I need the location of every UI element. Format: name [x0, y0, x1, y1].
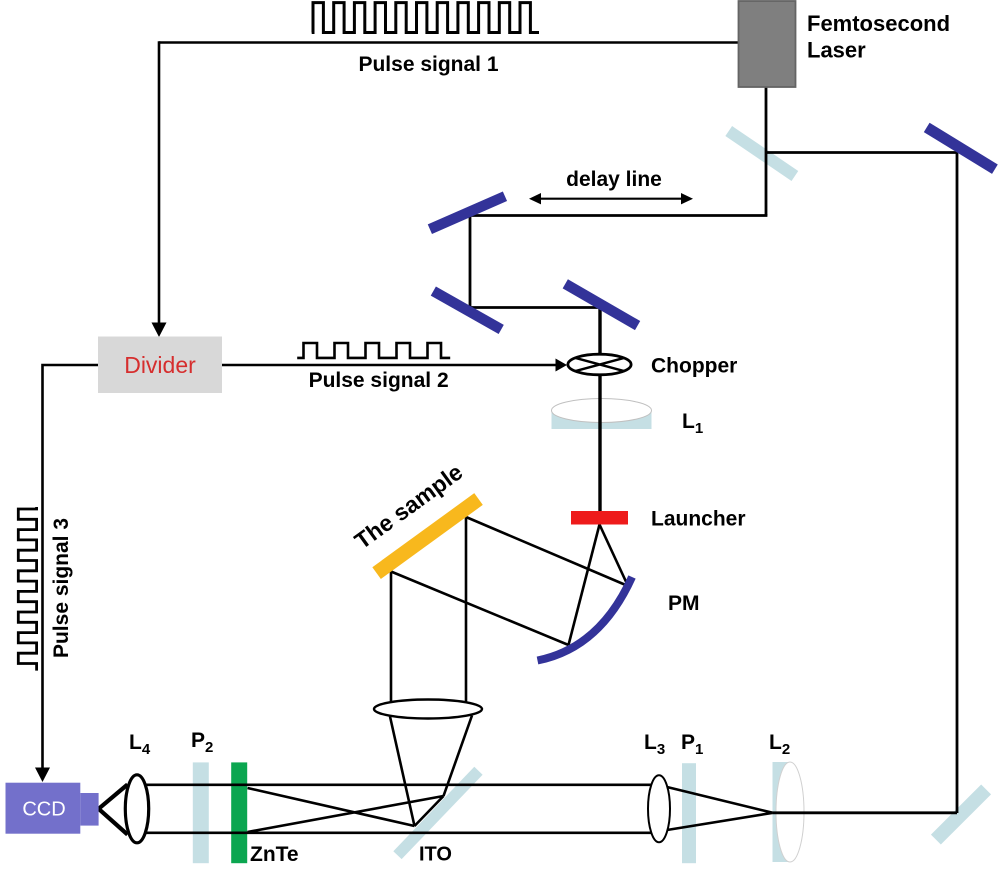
wire: Divider to Chopper with arrow: [222, 364, 556, 367]
svg-text:delay line: delay line: [566, 168, 662, 191]
mirror top right: [924, 123, 998, 174]
cone below lens left: [390, 717, 415, 827]
lens L1 top ellipse: [552, 399, 652, 423]
svg-text:ZnTe: ZnTe: [250, 843, 299, 866]
lens L1 body: [552, 411, 652, 430]
beam: bottom bottom line: [143, 831, 652, 834]
sample bar: [372, 493, 482, 579]
beam: launcher to PM bottom: [569, 525, 600, 646]
parabolic mirror PM: [538, 577, 633, 661]
polarizer P2: [193, 762, 209, 863]
beam: ZnTe top to ITO apex: [248, 788, 415, 826]
svg-text:Launcher: Launcher: [651, 508, 746, 531]
wire: M2 to M3 horizontal: [469, 306, 600, 309]
polarizer P1: [682, 763, 696, 863]
svg-text:Pulse signal 3: Pulse signal 3: [50, 518, 73, 658]
mirror M3: [563, 279, 641, 330]
pulse signal 2 waveform: [297, 343, 450, 358]
mirror M1: [428, 191, 507, 234]
beam splitter BS1 (below laser): [725, 126, 798, 181]
beam: PM top to sample right: [466, 517, 628, 586]
CCD cone top: [99, 785, 128, 809]
connector on ITO: [415, 796, 444, 826]
svg-text:Chopper: Chopper: [651, 355, 737, 378]
svg-text:ITO: ITO: [419, 844, 452, 866]
beam: launcher to PM top: [600, 525, 629, 587]
wire: delay vertical M1-M2: [469, 214, 472, 307]
CCD snout: [80, 793, 98, 826]
beam: ZnTe bottom to ITO point: [248, 796, 444, 832]
ZnTe crystal: [231, 762, 247, 863]
wire: delay line horizontal: [470, 214, 767, 217]
beam: PM bottom to sample left: [391, 572, 569, 646]
converging after L3 bottom: [667, 813, 773, 830]
beam: sample left vertical down: [390, 572, 393, 718]
beam: L2 focus to mirror right: [773, 811, 957, 814]
cone below lens right: [444, 716, 473, 797]
svg-text:CCD: CCD: [22, 799, 65, 821]
lens L3: [648, 775, 670, 842]
beam: sample right vertical down: [465, 517, 468, 710]
svg-text:Divider: Divider: [124, 352, 196, 378]
wire: Divider left and down to CCD: [43, 365, 99, 769]
CCD cone bottom: [99, 809, 128, 835]
converging after L3 top: [667, 787, 773, 813]
wire: right side down: [956, 151, 959, 813]
focusing lens (horizontal, above ITO): [374, 700, 482, 719]
lens L2 front ellipse: [776, 762, 804, 862]
svg-text:Pulse signal 1: Pulse signal 1: [358, 53, 498, 76]
femtosecond laser box: [739, 1, 796, 87]
mirror (pale, bottom right): [931, 784, 991, 844]
pulse signal 3 waveform (vertical): [18, 507, 36, 671]
ITO glass plate: [393, 767, 482, 859]
pulse signal 1 waveform: [312, 3, 539, 33]
wire: down to Divider: [158, 41, 161, 324]
chopper: [568, 354, 631, 375]
wire: M3 down through chopper/L1 to launcher: [598, 306, 601, 511]
arrowhead into Divider: [152, 323, 167, 338]
svg-text:Laser: Laser: [807, 38, 866, 63]
mirror M2: [431, 286, 504, 334]
wire: BS1 right to top-right mirror: [766, 151, 957, 154]
CCD box: [6, 783, 81, 834]
lens L4: [125, 775, 148, 843]
divider box: [98, 337, 222, 394]
delay line double arrow: [537, 198, 685, 200]
arrowhead into CCD: [35, 768, 50, 783]
wire: laser down to BS1: [765, 87, 768, 216]
beam: bottom top line: [143, 783, 652, 786]
svg-text:Femtosecond: Femtosecond: [807, 11, 950, 36]
launcher: [571, 511, 628, 525]
wire: laser to top-left: [159, 41, 739, 44]
svg-text:Pulse signal 2: Pulse signal 2: [309, 369, 449, 392]
svg-text:PM: PM: [668, 592, 700, 615]
lens L2 body: [773, 762, 791, 862]
